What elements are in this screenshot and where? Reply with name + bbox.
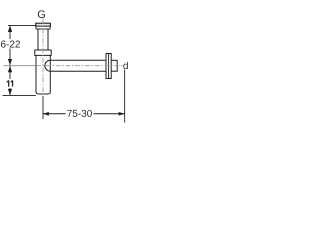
- vertical centerline: [42, 19, 44, 96]
- dim line 6-22 upper segment: [9, 26, 11, 39]
- extension line nut top: [8, 25, 36, 27]
- trap body bottom: [38, 93, 48, 95]
- dim arrow up at nut level: [8, 25, 12, 32]
- extension line outlet axis left: [4, 65, 37, 67]
- wall flange: [106, 54, 111, 79]
- horizontal centerline: [36, 65, 123, 67]
- label 11: [7, 80, 14, 86]
- dim arrow right 75-30: [119, 112, 125, 116]
- trap body right wall: [48, 55, 50, 94]
- extension line cup bottom: [3, 95, 36, 97]
- trap body left wall: [36, 55, 38, 94]
- outlet stub end cap: [116, 60, 118, 72]
- label 6-22: [1, 41, 20, 48]
- dim arrow down at outlet axis: [8, 59, 12, 65]
- outlet pipe bottom edge: [50, 70, 106, 72]
- dim arrow down at cup bottom: [8, 89, 12, 95]
- label 75-30: [67, 110, 92, 117]
- extension line trap axis bottom: [42, 96, 44, 119]
- background: [0, 0, 130, 130]
- dim line 75-30 right segment: [94, 113, 125, 115]
- dim arrow up at outlet axis: [8, 66, 12, 72]
- outlet pipe top edge: [50, 59, 106, 61]
- inlet pipe wall right: [47, 29, 49, 50]
- nut G top band: [36, 23, 51, 26]
- label d: [123, 62, 128, 69]
- dim line 11 upper segment: [9, 66, 11, 79]
- nut G body: [36, 26, 50, 29]
- outlet stub bottom edge: [111, 70, 117, 72]
- inlet pipe wall left: [37, 29, 39, 50]
- dim line 6-22 lower segment: [9, 49, 11, 66]
- dim arrow left 75-30: [43, 112, 49, 116]
- label G: [38, 10, 45, 18]
- outlet ball joint arc: [45, 60, 50, 71]
- wall flange mid line: [108, 54, 110, 79]
- dim line 11 lower segment: [9, 88, 11, 95]
- dim line 75-30 left segment: [43, 113, 66, 115]
- extension line pipe end right: [124, 70, 126, 123]
- collar ring: [35, 50, 51, 55]
- outlet stub top edge: [111, 59, 117, 61]
